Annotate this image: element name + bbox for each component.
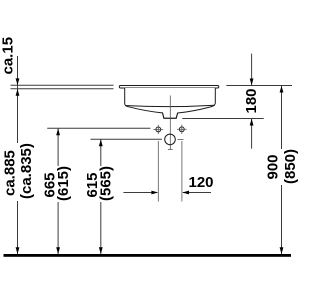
arrow 180 up	[250, 119, 254, 126]
svg-text:(ca.835): (ca.835)	[18, 143, 35, 199]
svg-text:(850): (850)	[282, 149, 299, 184]
drain hole right tick	[178, 138, 184, 140]
svg-text:(615): (615)	[55, 166, 72, 201]
drain hole big circle	[165, 134, 176, 145]
fixing hole right cross	[177, 128, 187, 130]
svg-text:180: 180	[243, 88, 260, 113]
dimension line 615 vertical	[100, 139, 102, 254]
arrow 120 right-pointing	[151, 191, 158, 195]
arrow 665 up	[56, 129, 60, 136]
arrow 900 up	[280, 86, 284, 93]
white mask behind 615 labels	[98, 166, 103, 202]
fixing hole right circle	[179, 127, 184, 132]
drain trapezoid	[163, 113, 178, 118]
fixing hole left cross	[154, 128, 164, 130]
extension line right (countertop level)	[226, 85, 292, 87]
svg-text:120: 120	[189, 174, 214, 191]
svg-text:ca.885: ca.885	[1, 150, 18, 196]
arrow 180 down	[250, 79, 254, 86]
dimension line 665 vertical	[57, 129, 59, 255]
hole centerline right below	[181, 141, 183, 202]
extension line 180 bottom	[182, 118, 263, 120]
arrow ca.885 down floor	[16, 247, 20, 254]
arrow ca.15 down	[16, 78, 20, 85]
svg-text:900: 900	[264, 154, 281, 179]
dimension line ca.15 / ca.885 vertical	[17, 56, 19, 254]
center axis line	[169, 96, 171, 150]
basin outer shell	[125, 88, 216, 118]
arrow 900 down floor	[280, 247, 284, 254]
arrow 120 left-pointing	[182, 191, 189, 195]
white mask behind ca.885 labels	[15, 143, 20, 201]
arrow 615 up	[99, 139, 103, 146]
dimension 120 right line	[183, 192, 211, 194]
floor line	[4, 254, 292, 257]
dimension line 900 vertical	[281, 86, 283, 254]
dimension line 180 vertical top segment	[251, 54, 253, 86]
arrow 665 down floor	[56, 247, 60, 254]
fixing hole left circle	[156, 127, 161, 132]
svg-text:(565): (565)	[97, 166, 114, 201]
basin inner bottom line	[125, 105, 215, 106]
countertop left top line	[11, 84, 114, 86]
arrow ca.885 up	[16, 89, 20, 96]
arrow 615 down floor	[99, 247, 103, 254]
white mask behind 665 labels	[56, 166, 61, 202]
extension line 615	[91, 138, 163, 140]
basin rim	[119, 86, 219, 89]
extension line 665	[47, 127, 150, 129]
svg-text:ca.15: ca.15	[0, 37, 16, 75]
dimension line 180 vertical bottom segment	[251, 119, 253, 149]
hole centerline left below	[157, 141, 159, 202]
white mask behind 900 labels	[279, 149, 284, 185]
dimension 120 left line	[123, 192, 157, 194]
center axis end tick	[168, 149, 173, 151]
countertop left bottom line	[11, 88, 114, 90]
